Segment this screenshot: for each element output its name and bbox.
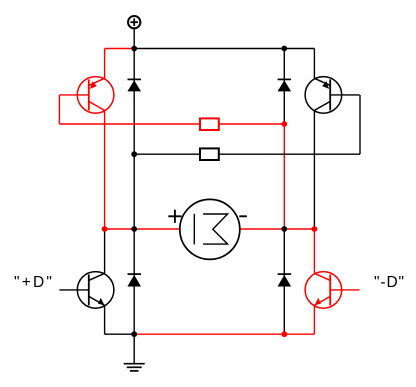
- diode D1: [127, 79, 141, 91]
- wire left diode column (D1/D3 string): [133, 49, 135, 335]
- wire Q4 collector up to motor-right node (red): [313, 229, 315, 274]
- junction node V+ top rail: [131, 46, 137, 52]
- wire left column node to R2 left (black): [134, 153, 200, 155]
- wire top rail black segment (V+ node to Q2 emitter): [134, 48, 314, 50]
- diode D2: [278, 79, 292, 91]
- diode D3: [127, 274, 141, 286]
- wire Q1 base to R1 left (red): [59, 123, 200, 125]
- wire Q2 collector down to motor-right node (black): [313, 111, 315, 229]
- wire Q2 emitter up to top rail (black): [313, 49, 315, 80]
- junction node bottom rail / D4 (red): [281, 331, 287, 337]
- junction node motor-left / Q1-Q3 (red): [102, 226, 108, 232]
- junction node motor-left / left diode column: [131, 226, 137, 232]
- wire right diode column middle red (R1 net down to motor-right node): [283, 124, 285, 229]
- wire motor-left node to motor + terminal (red): [105, 228, 180, 230]
- wire bottom rail black segment (Q3 emitter to ground node): [105, 333, 135, 335]
- junction node motor-right / Q2-Q4 (red): [312, 226, 318, 232]
- svg-text:"-D": "-D": [374, 274, 405, 291]
- transistor Q4 (NPN, red, bottom-right, mirrored): [305, 272, 360, 309]
- svg-text:"+D": "+D": [14, 274, 54, 291]
- wire Q1 emitter up to top rail (red): [104, 49, 106, 80]
- wire R2 right going right (black): [219, 153, 360, 155]
- junction node motor-right / right diode column: [281, 226, 287, 232]
- wire Q3 emitter down to bottom rail (black): [104, 306, 106, 335]
- transistor Q2 (PNP, black, top-right, mirrored): [305, 77, 360, 114]
- junction node R2 net / left column: [131, 151, 137, 157]
- junction node R1 net / right column (red): [281, 121, 287, 127]
- transistor Q3 (NPN, black, bottom-left): [59, 272, 113, 309]
- wire R1 right to right column node (red): [219, 123, 284, 125]
- wire right diode column lower black (motor-right node through D4 to bottom rail): [283, 229, 285, 334]
- motor + polarity mark: [168, 210, 181, 223]
- wire Q1 collector down to motor-left node (red): [104, 111, 106, 229]
- wire Q3 collector up to motor-left node (black): [104, 229, 106, 274]
- junction node bottom rail / ground: [131, 331, 137, 337]
- wire Q1 base corner down (red): [58, 95, 60, 124]
- wire right diode column upper black (top rail to D2 cathode net): [283, 49, 285, 125]
- ground: [124, 334, 145, 371]
- motor - polarity mark: [239, 215, 247, 217]
- power supply symbol V+ (circle with plus): [128, 16, 140, 49]
- wire bottom rail red segment (ground node to Q4 emitter): [134, 333, 314, 335]
- transistor Q1 (PNP, red, top-left): [59, 77, 113, 114]
- diode D4: [278, 274, 292, 286]
- wire Q4 emitter up from bottom rail (red): [313, 306, 315, 335]
- motor M1: [180, 199, 240, 259]
- resistor R1 (red): [200, 118, 219, 130]
- junction node top rail / D2: [281, 46, 287, 52]
- resistor R2 (black): [200, 148, 219, 160]
- wire top rail red segment (Q1 emitter to V+ node): [105, 48, 135, 50]
- wire motor - terminal to motor-right node (red): [240, 228, 315, 230]
- wire R2 net up to Q2 base (black): [359, 95, 361, 154]
